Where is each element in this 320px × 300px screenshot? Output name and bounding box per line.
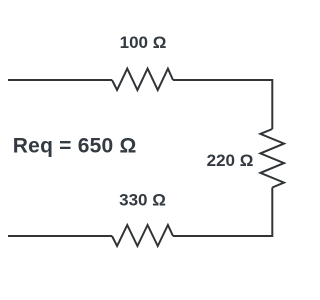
svg-text:100 Ω: 100 Ω [120, 33, 167, 52]
wire [8, 235, 112, 237]
resistor R3 [112, 225, 173, 246]
resistor R1 [112, 69, 173, 90]
svg-text:Req = 650 Ω: Req = 650 Ω [13, 134, 137, 157]
wire [173, 80, 272, 129]
resistor R2 [260, 129, 284, 188]
wire [173, 188, 272, 237]
svg-text:330 Ω: 330 Ω [119, 191, 166, 210]
wire [8, 79, 112, 81]
svg-text:220 Ω: 220 Ω [207, 151, 254, 170]
